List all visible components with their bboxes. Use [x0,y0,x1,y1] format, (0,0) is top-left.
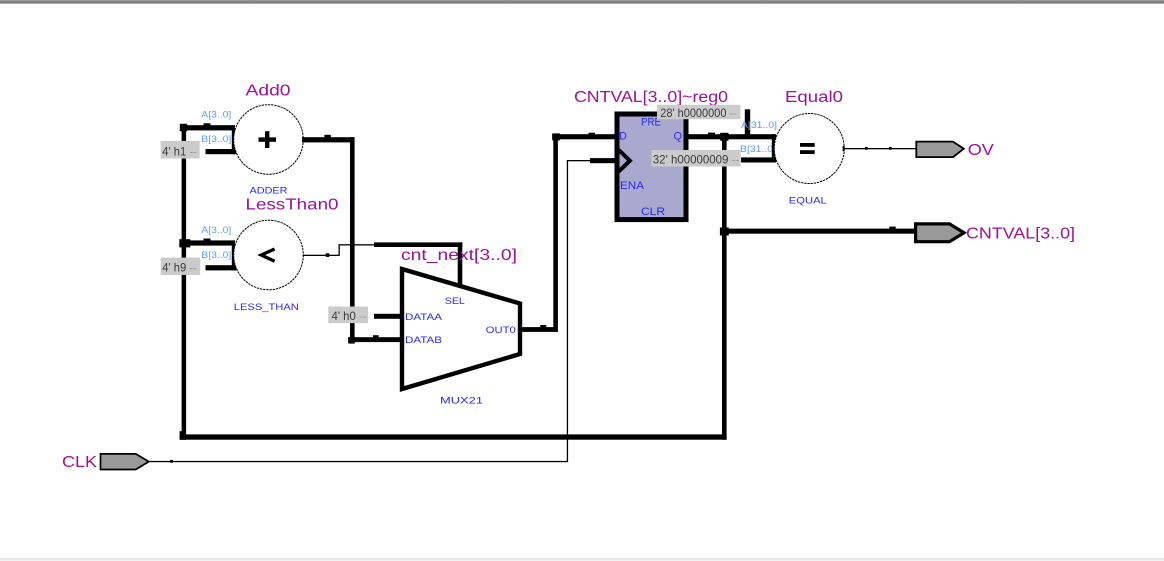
svg-text:CLR: CLR [641,206,665,218]
svg-text:DATAB: DATAB [405,335,442,346]
svg-text:CNTVAL[3..0]~reg0: CNTVAL[3..0]~reg0 [574,89,728,106]
tick on DATAB wire [373,335,379,338]
svg-text:OUT0: OUT0 [486,325,516,336]
wire: sel jog horizontal thin [339,244,375,245]
svg-text:B[3..0]: B[3..0] [201,134,231,144]
wire: DATAA input [374,314,403,319]
svg-text:LessThan0: LessThan0 [246,197,339,214]
wire: OUT0 vertical up to D [553,134,558,332]
wire: Add0 output horizontal [302,137,355,142]
node: junction square on bus at LessThan A [179,239,190,247]
wire: D input horizontal [552,134,615,139]
node: dot 2 on OV wire [889,147,892,150]
wire: feedback vertical from Q [722,136,727,440]
node: dot 1 on OV wire [865,147,868,150]
wire: connector bar on LessThan0 left edge [232,240,235,270]
constant 28'h0000000 box [657,105,741,119]
svg-text:B[31..0]: B[31..0] [740,144,776,154]
svg-text:ADDER: ADDER [250,186,288,197]
node: junction at feedback bus [720,228,729,236]
comparator circle LessThan0 [234,220,304,290]
constant 32'h00000009 box [652,150,741,167]
plus sign [259,137,277,141]
wire: OUT0 horizontal [520,327,558,332]
wire: SEL thick vertical into mux [458,242,463,287]
svg-text:MUX21: MUX21 [440,396,483,407]
svg-text:4' h9 --: 4' h9 -- [162,261,197,275]
constant 4'h9 box [161,258,201,275]
svg-text:D: D [619,130,627,142]
svg-text:CNTVAL[3..0]: CNTVAL[3..0] [966,225,1075,242]
wire: sel jog vertical thin [339,244,340,256]
svg-text:cnt_next[3..0]: cnt_next[3..0] [401,247,517,264]
svg-text:4' h0 --: 4' h0 -- [332,309,367,323]
node: corner square at D wire [552,133,560,140]
comparator circle Equal0 [774,114,844,184]
svg-text:EQUAL: EQUAL [789,196,828,207]
wire: Q output to Equal0 A [689,134,777,139]
svg-text:CLK: CLK [62,454,98,471]
less-than sign [261,249,274,261]
wire: 28'h constant vertical to A bus [745,109,750,137]
wire: Equal0 B input [741,157,776,162]
input pin CLK [101,454,149,470]
wire: clock into register thick [590,158,616,163]
wire: Equal0 output thin to OV [844,148,916,149]
wire: CLK horizontal thin [149,461,568,462]
svg-text:ENA: ENA [620,180,645,192]
svg-text:28' h0000000 --: 28' h0000000 -- [660,106,737,120]
register CNTVAL[3..0]~reg0 [617,114,686,220]
wire: CNTVAL output horizontal [724,229,915,234]
output pin OV [916,142,964,158]
svg-text:DATAA: DATAA [405,312,443,323]
wire: bottom feedback bus horizontal (y=437) [180,434,727,439]
wire: SEL thick horizontal [374,242,462,247]
svg-text:LESS_THAN: LESS_THAN [234,302,299,313]
svg-text:Equal0: Equal0 [785,89,843,106]
node: dot on CLK wire [170,460,173,463]
tick on Add0 A wire [204,123,211,126]
constant 4'h0 box [328,307,368,324]
tick on CNTVAL wire [889,227,895,230]
constant 4'h1 box [161,141,200,159]
svg-text:OV: OV [968,142,995,159]
wire: Add0 A input [182,125,235,130]
clock chevron [619,150,630,172]
node: corner bulge at DATAB [348,337,355,343]
svg-text:Add0: Add0 [246,83,291,100]
svg-text:B[3..0]: B[3..0] [201,250,231,260]
bottom window border line [0,558,1164,561]
wire: DATAB horizontal [348,337,402,342]
svg-text:SEL: SEL [445,296,466,307]
equals sign [800,143,815,147]
top window border bar [0,0,1164,4]
wire: Add0 output vertical down to DATAB [350,137,355,340]
node: junction square on Q wire [720,133,728,141]
tick on LessThan A wire [204,239,211,242]
wire: connector bar on Equal0 left edge [772,134,775,162]
op-amp adder circle Add0 [234,105,304,175]
mux MUX21 trapezoid [402,269,520,389]
svg-text:4' h1 --: 4' h1 -- [162,144,197,158]
tick on Add0 output [324,135,330,138]
svg-text:A[31..0]: A[31..0] [741,120,777,130]
wire: nub at Equal0 output [843,146,845,151]
svg-text:Q: Q [674,130,683,142]
tick on D wire [589,133,596,136]
wire: connector bar on Add0 left edge [232,125,235,154]
svg-text:A[3..0]: A[3..0] [201,225,231,235]
node: junction cap top of left bus [180,124,187,131]
wire: LessThan0 B input [206,265,237,270]
node: corner bulge bottom-left [180,431,186,440]
wire: CLK vertical thin [567,160,568,462]
node: junction dot on sel wire [326,253,330,257]
wire: Add0 B input [206,149,237,154]
tick on Q wire [708,133,715,136]
svg-text:32' h00000009 --: 32' h00000009 -- [653,152,740,166]
output pin CNTVAL[3..0] [916,224,964,242]
wire: LessThan0 A input [182,240,235,245]
svg-text:A[3..0]: A[3..0] [201,110,231,120]
wire: left feedback bus vertical (x=184) [182,124,187,440]
wire: clock into register thin [567,160,591,161]
wire: LessThan0 output thin [303,255,340,256]
tick on OUT0 wire [540,325,546,328]
